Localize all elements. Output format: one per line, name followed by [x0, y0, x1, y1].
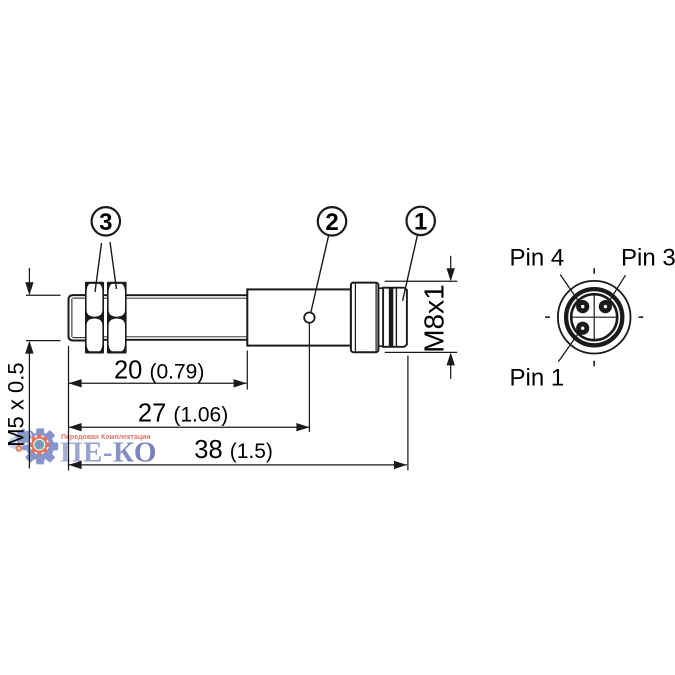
balloon 1 [407, 207, 435, 236]
svg-text:1: 1 [414, 208, 427, 235]
svg-text:20 (0.79): 20 (0.79) [114, 357, 204, 385]
pin 3 dot [599, 300, 612, 313]
38 dimension line [69, 464, 407, 466]
svg-text:Pin 4: Pin 4 [510, 244, 565, 271]
svg-text:M5 x 0.5: M5 x 0.5 [4, 362, 29, 446]
pinout thick ring [566, 289, 622, 345]
svg-text:3: 3 [99, 209, 112, 236]
watermark red flower gear [29, 434, 50, 455]
20 dimension line [69, 382, 247, 384]
27 dimension line [69, 426, 310, 428]
hex nut left (3) [85, 282, 104, 354]
balloon 1 leader line [403, 235, 418, 301]
balloon 2 leader line [311, 236, 329, 313]
watermark small red ring [16, 445, 23, 452]
pinout connector face [545, 268, 643, 366]
watermark pale leaves [7, 434, 22, 446]
watermark big blue gear [22, 428, 58, 464]
balloon 3 leader lines [95, 242, 117, 292]
pinout tick dashes [545, 268, 643, 366]
svg-text:27 (1.06): 27 (1.06) [138, 399, 228, 427]
main body [247, 289, 351, 345]
threaded barrel [86, 295, 247, 340]
pinout crosshair [570, 295, 618, 341]
svg-text:M8x1: M8x1 [419, 284, 450, 352]
svg-text:Pin 3: Pin 3 [621, 244, 675, 271]
pinout inner ring [571, 294, 617, 340]
collar ring [351, 283, 379, 353]
watermark logo PE-KO [7, 428, 157, 468]
hex nut right (3) [107, 282, 127, 354]
svg-text:38 (1.5): 38 (1.5) [194, 436, 273, 464]
neck [378, 288, 383, 346]
extension lines [26, 281, 457, 470]
pinout outer circle [558, 281, 631, 354]
pin leader lines [558, 275, 625, 362]
M8 dimension line [450, 256, 452, 379]
sensor tip (sensing face) [69, 295, 87, 340]
svg-text:Pin 1: Pin 1 [510, 364, 565, 391]
balloon 2 [318, 207, 346, 236]
pin 4 dot [576, 300, 589, 313]
LED hole (2) [304, 312, 314, 322]
watermark small blue gear [15, 428, 32, 445]
svg-text:2: 2 [325, 209, 338, 236]
connector end (1) [383, 288, 407, 347]
balloon 3 [92, 207, 120, 236]
pin 1 dot [576, 322, 589, 335]
M5 dimension line [28, 268, 30, 469]
